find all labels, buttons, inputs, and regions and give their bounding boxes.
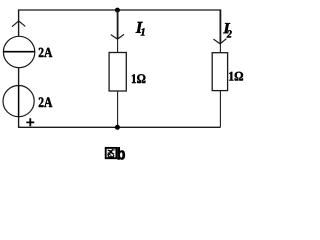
voltage source vertical bar [18, 86, 20, 117]
node top junction dot [115, 8, 120, 13]
wire left branch bottom segment [18, 117, 20, 128]
caption letter b [118, 147, 125, 159]
plus polarity mark [26, 118, 34, 126]
node bottom junction dot [115, 125, 120, 130]
wire left branch top segment [18, 9, 20, 36]
caption glyph tu (figure) drawn [106, 148, 117, 158]
wire into resistor R2 [219, 44, 221, 53]
wire bottom horizontal [19, 126, 221, 128]
label 1 ohm (R2) [229, 72, 243, 81]
voltage source U2 circle [3, 86, 34, 117]
wire middle branch arrow shaft [117, 10, 119, 39]
wire top horizontal [19, 9, 221, 11]
arrow down I1 [111, 34, 124, 39]
arrow up (current source direction) [12, 21, 25, 27]
label I1 [136, 22, 143, 33]
wire between sources [18, 68, 20, 86]
resistor R2 body [212, 53, 227, 91]
current source horizontal bar [3, 51, 34, 53]
wire into resistor R1 [117, 39, 119, 53]
label 2A (current source) [39, 48, 53, 57]
wire below R1 [117, 91, 119, 127]
label I2 [223, 23, 230, 33]
resistor R1 body [109, 53, 126, 92]
label 2A (voltage source) [39, 97, 53, 107]
arrow down I2 [214, 39, 227, 44]
label 1 ohm (R1) [132, 74, 146, 83]
current source U1 circle [3, 36, 34, 67]
wire right branch arrow shaft [219, 9, 221, 43]
wire below R2 [219, 91, 221, 128]
